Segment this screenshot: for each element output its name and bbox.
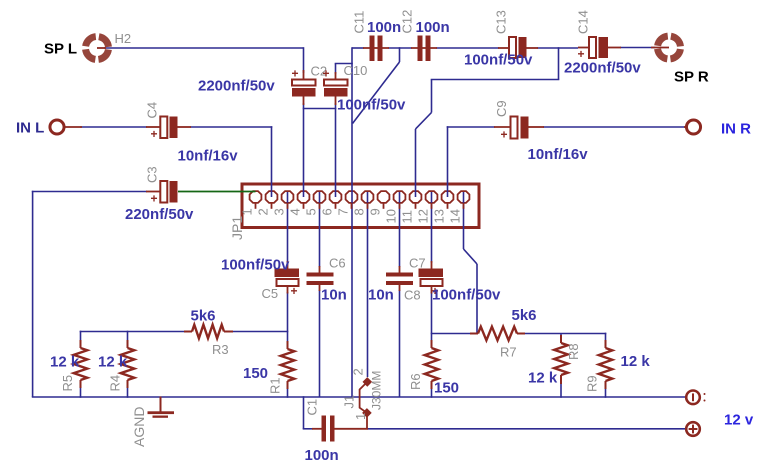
- label H2: [115, 31, 132, 46]
- terminal pad ground (|): [686, 391, 705, 405]
- resistor R7: [470, 327, 525, 341]
- mount pad H2 (SP L): [86, 37, 109, 60]
- svg-text:JP1: JP1: [229, 216, 245, 240]
- label C6: [329, 256, 346, 271]
- svg-text:+: +: [291, 284, 298, 298]
- svg-text:4: 4: [288, 208, 303, 215]
- label C7: [409, 256, 426, 271]
- svg-text:C3: C3: [145, 166, 160, 183]
- capacitor C13: [498, 37, 538, 58]
- label AGND: [131, 407, 147, 447]
- svg-text:6: 6: [320, 208, 335, 215]
- label C2: [311, 64, 328, 79]
- label J1 J30MM: [370, 371, 384, 410]
- connector JP1 pin stubs: [256, 203, 464, 209]
- plus C14: [578, 47, 585, 61]
- svg-text:5k6: 5k6: [512, 307, 537, 324]
- value C6 10n: [321, 287, 347, 304]
- capacitor C8: [386, 266, 413, 291]
- svg-text:10nf/16v: 10nf/16v: [178, 148, 239, 165]
- label C5: [262, 286, 279, 301]
- svg-text:100nf/50v: 100nf/50v: [464, 52, 533, 69]
- value R8 12 k: [528, 370, 558, 387]
- value C7 100nf/50v: [432, 287, 501, 304]
- svg-text:10n: 10n: [368, 287, 394, 304]
- label C10: [344, 63, 368, 78]
- label J1: [342, 395, 357, 409]
- svg-text:C6: C6: [329, 256, 346, 271]
- svg-text:R6: R6: [408, 373, 423, 390]
- svg-text:100n: 100n: [416, 19, 450, 36]
- capacitor C6: [307, 266, 334, 291]
- wire C2/C10 bottoms to JP1 pins 4,6: [303, 103, 337, 197]
- plus C7: [432, 284, 439, 298]
- wire ground bus: [32, 396, 687, 398]
- wire R6/R7/R8/R9 tops: [431, 333, 607, 341]
- label R5: [60, 375, 75, 392]
- wire JP1 pin 3 to C5: [287, 192, 289, 263]
- capacitor C10: [324, 72, 348, 105]
- label R8: [566, 343, 581, 360]
- value C14 2200nf/50v: [564, 60, 641, 77]
- svg-text:R4: R4: [108, 375, 123, 392]
- svg-text:11: 11: [400, 210, 415, 224]
- svg-text:R9: R9: [585, 375, 600, 392]
- svg-text:C10: C10: [344, 63, 368, 78]
- svg-text:10n: 10n: [321, 287, 347, 304]
- svg-text:100n: 100n: [367, 19, 401, 36]
- svg-text:12: 12: [416, 209, 431, 223]
- capacitor C11: [363, 36, 389, 62]
- svg-text:9: 9: [368, 208, 383, 215]
- label J1 pin 1: [353, 413, 368, 420]
- capacitor C12: [411, 36, 437, 62]
- svg-text:3: 3: [272, 208, 287, 215]
- value C10 100nf/50v: [337, 97, 406, 114]
- svg-text:2200nf/50v: 2200nf/50v: [564, 60, 641, 77]
- text IN R: [721, 121, 751, 138]
- svg-text:C4: C4: [145, 102, 160, 119]
- svg-text:5k6: 5k6: [191, 308, 216, 325]
- resistor R8: [554, 335, 568, 384]
- svg-text:1: 1: [240, 208, 255, 215]
- port IN L pad: [50, 120, 82, 134]
- svg-text:C1: C1: [305, 399, 320, 416]
- resistor R1: [281, 341, 295, 389]
- svg-text:+: +: [151, 192, 158, 206]
- capacitor C7: [419, 261, 444, 294]
- label R3: [212, 342, 229, 357]
- value C1 100n: [305, 447, 339, 464]
- value R7 5k6: [512, 307, 537, 324]
- wire IN L to C4: [80, 126, 147, 128]
- value R6 150: [434, 380, 459, 397]
- svg-text:100nf/50v: 100nf/50v: [337, 97, 406, 114]
- svg-text:12 k: 12 k: [528, 370, 558, 387]
- label C11: [352, 11, 367, 34]
- svg-text:SP R: SP R: [674, 69, 709, 86]
- text 12 v: [724, 412, 754, 429]
- svg-text:R3: R3: [212, 342, 229, 357]
- value C13 100nf/50v: [464, 52, 533, 69]
- port IN R pad: [684, 120, 701, 134]
- svg-text:C5: C5: [262, 286, 279, 301]
- ground AGND symbol: [148, 397, 175, 418]
- svg-text:C14: C14: [576, 10, 591, 34]
- value R1 150: [243, 365, 268, 382]
- wire JP1 pin 10 / C8 column: [399, 192, 401, 397]
- label C1: [305, 399, 320, 416]
- wire C5 bottom to R3/R1 junction: [233, 292, 288, 342]
- svg-text:+: +: [151, 127, 158, 141]
- label C12: [400, 10, 415, 34]
- wire JP1 pin 8 to J1: [367, 192, 369, 377]
- svg-text:13: 13: [432, 209, 447, 223]
- svg-text:12 k: 12 k: [98, 354, 128, 371]
- resistor R4: [121, 340, 135, 388]
- value C5 100nf/50v: [221, 257, 290, 274]
- wire C4 to JP1 pin 2: [190, 126, 272, 197]
- plus C5: [291, 284, 298, 298]
- label C3: [145, 166, 160, 183]
- svg-text:2: 2: [256, 208, 271, 215]
- plus C2: [292, 67, 299, 81]
- connector JP1 pads 1-14: [250, 191, 470, 203]
- svg-text:SP L: SP L: [44, 41, 77, 58]
- capacitor C3: [146, 181, 178, 203]
- wire C13/C14 staircase to JP1 pin 11: [416, 47, 579, 197]
- svg-text:100nf/50v: 100nf/50v: [221, 257, 290, 274]
- wire JP1 pin 5 / C6 column: [319, 192, 321, 397]
- svg-text:2200nf/50v: 2200nf/50v: [198, 78, 275, 95]
- value R5 12 k: [50, 354, 80, 371]
- wire R5/R4 tops to R3: [80, 331, 184, 341]
- label C8: [404, 288, 421, 303]
- text SP R: [674, 69, 709, 86]
- resistor R6: [425, 340, 439, 389]
- svg-text:+: +: [501, 128, 508, 142]
- svg-text:100nf/50v: 100nf/50v: [432, 287, 501, 304]
- text IN L: [16, 120, 44, 137]
- wire C14 to SP R: [620, 47, 655, 49]
- svg-text:12 k: 12 k: [621, 353, 651, 370]
- wire C11-C12 junction diagonal: [353, 47, 413, 123]
- svg-text:IN L: IN L: [16, 120, 44, 137]
- label R9: [585, 375, 600, 392]
- capacitor C5: [275, 261, 300, 294]
- wire left rail to C3: [32, 191, 147, 397]
- svg-text:12 v: 12 v: [724, 412, 754, 429]
- label R1: [268, 377, 283, 394]
- jumper J1: [360, 377, 373, 429]
- wire resistor bottoms to bus: [81, 383, 606, 398]
- plus C9: [501, 128, 508, 142]
- svg-text:5: 5: [304, 208, 319, 215]
- wire C3 to JP1 pin 1 (green net): [178, 191, 256, 193]
- mount pad SP R: [651, 36, 681, 59]
- svg-text:R5: R5: [60, 375, 75, 392]
- value C9 10nf/16v: [528, 146, 589, 163]
- value R4 12 k: [98, 354, 128, 371]
- plus C3: [151, 192, 158, 206]
- svg-text:14: 14: [448, 209, 463, 223]
- svg-text:10nf/16v: 10nf/16v: [528, 146, 589, 163]
- plus C4: [151, 127, 158, 141]
- svg-text:R7: R7: [500, 345, 517, 360]
- value C3 220nf/50v: [125, 206, 194, 223]
- connector JP1 pin numbers: [240, 208, 463, 223]
- label R7: [500, 345, 517, 360]
- svg-text:R8: R8: [566, 343, 581, 360]
- capacitor C14: [578, 37, 621, 58]
- svg-text:C13: C13: [494, 10, 509, 34]
- value C12 100n: [416, 19, 450, 36]
- svg-text:+: +: [323, 67, 330, 81]
- capacitor C2: [292, 70, 316, 105]
- svg-text:C12: C12: [400, 10, 415, 34]
- svg-text:J1: J1: [342, 395, 357, 409]
- resistor R3: [184, 325, 233, 339]
- capacitor C4: [146, 117, 191, 139]
- label C13: [494, 10, 509, 34]
- svg-text:AGND: AGND: [131, 407, 147, 447]
- label C9: [494, 100, 509, 117]
- svg-text:7: 7: [336, 208, 351, 215]
- resistor R5: [74, 340, 88, 388]
- label R6: [408, 373, 423, 390]
- svg-text:+: +: [292, 67, 299, 81]
- capacitor C9: [494, 117, 544, 139]
- value C8 10n: [368, 287, 394, 304]
- svg-text:100n: 100n: [305, 447, 339, 464]
- svg-text:H2: H2: [115, 31, 132, 46]
- value R9 12 k: [621, 353, 651, 370]
- wire JP1 pin 14 to R7: [464, 192, 478, 334]
- label R4: [108, 375, 123, 392]
- svg-text:2: 2: [351, 368, 366, 375]
- svg-text:10: 10: [384, 209, 399, 223]
- wire +12V line via C1/J1: [303, 396, 687, 429]
- svg-text:220nf/50v: 220nf/50v: [125, 206, 194, 223]
- value C11 100n: [367, 19, 401, 36]
- label C14: [576, 10, 591, 34]
- value C4 10nf/16v: [178, 148, 239, 165]
- svg-text:R1: R1: [268, 377, 283, 394]
- wire C9 net / JP1 pin 13: [447, 126, 687, 197]
- plus C10: [323, 67, 330, 81]
- capacitor C1: [312, 416, 368, 442]
- value R3 5k6: [191, 308, 216, 325]
- text SP L: [44, 41, 77, 58]
- wire SP L net H2 to C2: [104, 47, 304, 73]
- svg-text:8: 8: [352, 208, 367, 215]
- wire C11 left to JP1 pin 7: [352, 47, 364, 203]
- connector JP1 body: [242, 184, 479, 228]
- wire C12 to C13: [436, 47, 499, 49]
- terminal pad +12V (+): [686, 422, 700, 436]
- svg-text:IN R: IN R: [721, 121, 751, 138]
- svg-text:C11: C11: [352, 11, 367, 34]
- label C4: [145, 102, 160, 119]
- resistor R9: [599, 340, 613, 389]
- svg-text:C7: C7: [409, 256, 426, 271]
- svg-text:12 k: 12 k: [50, 354, 80, 371]
- svg-text:150: 150: [434, 380, 459, 397]
- svg-text:150: 150: [243, 365, 268, 382]
- value C2 2200nf/50v: [198, 78, 275, 95]
- svg-text:J30MM: J30MM: [370, 371, 384, 410]
- wire C10 top jog: [335, 64, 353, 75]
- svg-text:C8: C8: [404, 288, 421, 303]
- wire JP1 pin 7 to ground bus: [351, 203, 353, 397]
- svg-text:C9: C9: [494, 100, 509, 117]
- label JP1: [229, 216, 245, 240]
- wire JP1 pin 12 / C7 column: [431, 192, 433, 342]
- label J1 pin 2: [351, 368, 366, 375]
- svg-text:1: 1: [353, 413, 368, 420]
